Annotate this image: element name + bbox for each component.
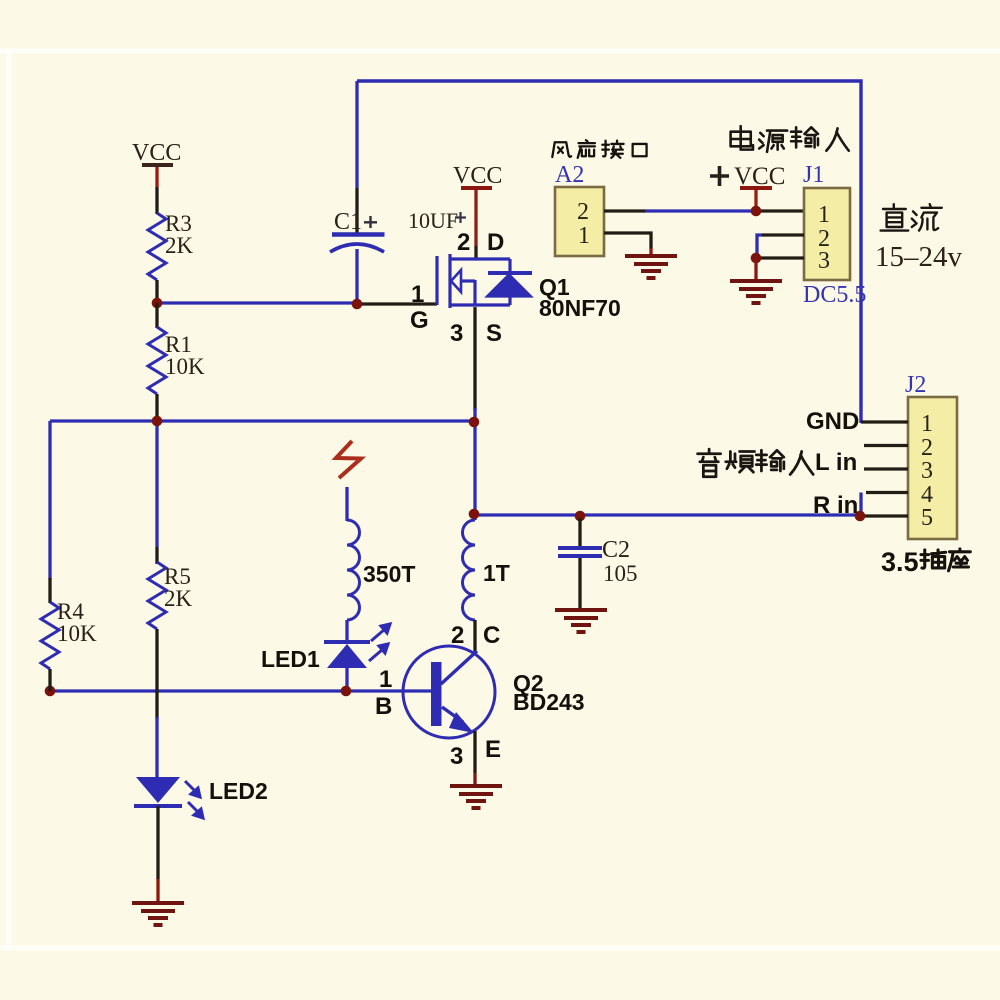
svg-text:3: 3	[921, 458, 933, 484]
wire A2 pin2 to VCC node	[604, 209, 646, 212]
wire 1T to Q2 collector	[473, 620, 476, 655]
node gate/R3/R1	[152, 298, 163, 309]
wire J2 pin5	[862, 514, 908, 517]
mosfet Q1	[437, 254, 532, 308]
node left base wire	[45, 686, 56, 697]
wire LED2 to ground	[156, 806, 159, 879]
svg-text:C2: C2	[602, 537, 630, 563]
svg-text:1: 1	[921, 411, 933, 437]
svg-text:D: D	[487, 229, 504, 256]
node VCC/A2/J1	[751, 206, 762, 217]
svg-text:3: 3	[450, 320, 463, 347]
wire R-in net horizontal	[475, 513, 860, 516]
lightning arrow over 350T	[336, 441, 361, 478]
label power input (Chinese)	[731, 126, 849, 152]
svg-text:2K: 2K	[164, 586, 193, 611]
ground C2	[555, 608, 607, 612]
connector A2 fan header	[555, 187, 604, 256]
ground A2	[625, 254, 677, 258]
label fan interface (Chinese)	[552, 140, 646, 158]
wire gate net horizontal	[157, 301, 358, 304]
svg-text:DC5.5: DC5.5	[803, 282, 866, 308]
svg-text:R in: R in	[813, 492, 858, 519]
resistor R1	[155, 303, 158, 328]
svg-text:A2: A2	[555, 162, 584, 188]
svg-text:VCC: VCC	[132, 140, 181, 166]
wire source to 1T	[473, 421, 476, 520]
wire J2 pin1 GND	[861, 420, 908, 423]
svg-text:1: 1	[379, 666, 392, 693]
svg-text:LED1: LED1	[261, 646, 320, 672]
wire J2 pin3 stub	[864, 467, 908, 470]
svg-text:1: 1	[578, 223, 590, 249]
inductor 1T	[463, 520, 476, 620]
svg-text:2: 2	[451, 622, 464, 649]
ground J1	[730, 279, 782, 283]
svg-text:1T: 1T	[483, 560, 510, 586]
node LED1/base	[341, 686, 352, 697]
wire 350T to LED1	[345, 620, 348, 642]
wire base-divider net y421	[50, 419, 474, 422]
svg-text:E: E	[485, 736, 501, 763]
svg-text:J1: J1	[803, 162, 824, 188]
svg-text:1: 1	[818, 202, 830, 228]
svg-text:GND: GND	[806, 408, 859, 435]
label audio input (Chinese)	[698, 449, 814, 477]
svg-text:C: C	[483, 622, 500, 649]
power flag +VCC at J1	[710, 166, 729, 186]
svg-text:BD243: BD243	[513, 689, 585, 715]
ground Q2 emitter	[450, 784, 502, 788]
svg-text:80NF70: 80NF70	[539, 295, 621, 321]
svg-text:2: 2	[457, 229, 470, 256]
resistor R3	[148, 213, 166, 280]
wire J1 pin2 loop	[762, 233, 804, 236]
connector J2 audio jack	[908, 397, 957, 539]
svg-text:3: 3	[818, 248, 830, 274]
LED LED1	[324, 640, 370, 644]
svg-text:VCC: VCC	[453, 163, 502, 189]
svg-text:3: 3	[450, 743, 463, 770]
resistor R5	[148, 562, 166, 629]
wire Q2 emitter down	[473, 731, 476, 773]
svg-text:B: B	[375, 693, 392, 720]
wire MOSFET source down	[473, 307, 476, 410]
label DC 15-24v (Chinese)	[881, 204, 942, 230]
wire J2 pin2 stub	[864, 444, 908, 447]
node J1 pin3/gnd	[751, 253, 762, 264]
wire C1 upper lead	[355, 81, 358, 188]
node C1/gate wire	[352, 299, 363, 310]
svg-text:350T: 350T	[363, 561, 415, 587]
wire J2 pin4 to R-in	[866, 491, 908, 494]
svg-text:2: 2	[577, 199, 589, 225]
node 1T top / R-in	[469, 509, 480, 520]
wire top bus VCC net	[357, 81, 861, 423]
wire base net y691	[50, 689, 432, 692]
svg-text:J2: J2	[905, 372, 926, 398]
wire R5 to LED2	[155, 629, 158, 719]
svg-text:10UF: 10UF	[408, 208, 458, 233]
wire R5 top lead	[155, 421, 158, 547]
connector J1	[804, 188, 850, 280]
svg-text:VCC: VCC	[734, 163, 785, 190]
transistor Q2	[403, 646, 495, 738]
svg-text:3.5: 3.5	[881, 547, 919, 577]
inductor 350T	[347, 520, 360, 620]
svg-text:2K: 2K	[165, 233, 194, 258]
svg-text:G: G	[410, 307, 429, 334]
svg-text:C1: C1	[334, 209, 362, 235]
ground LED2	[132, 901, 184, 905]
wire LED1 to base wire	[345, 668, 348, 691]
svg-text:105: 105	[603, 561, 638, 586]
svg-text:5: 5	[921, 505, 933, 531]
resistor R4	[48, 578, 51, 603]
svg-text:L in: L in	[815, 449, 857, 476]
node R-in / pin4/pin5	[855, 511, 866, 522]
node R1/R5/wire	[152, 416, 163, 427]
svg-text:15–24v: 15–24v	[875, 241, 963, 273]
capacitor C2	[575, 511, 586, 522]
wire A2 pin1 to ground	[604, 233, 651, 249]
svg-text:10K: 10K	[165, 354, 205, 379]
wire J1 pin3	[758, 256, 804, 259]
wire bolt to 350T	[345, 487, 348, 521]
node source/y421	[469, 417, 480, 428]
svg-text:1: 1	[411, 281, 424, 308]
svg-text:LED2: LED2	[209, 778, 268, 804]
svg-text:S: S	[486, 320, 502, 347]
LED LED2	[136, 777, 180, 803]
svg-text:10K: 10K	[57, 621, 97, 646]
wire left branch down to R4	[48, 421, 51, 579]
